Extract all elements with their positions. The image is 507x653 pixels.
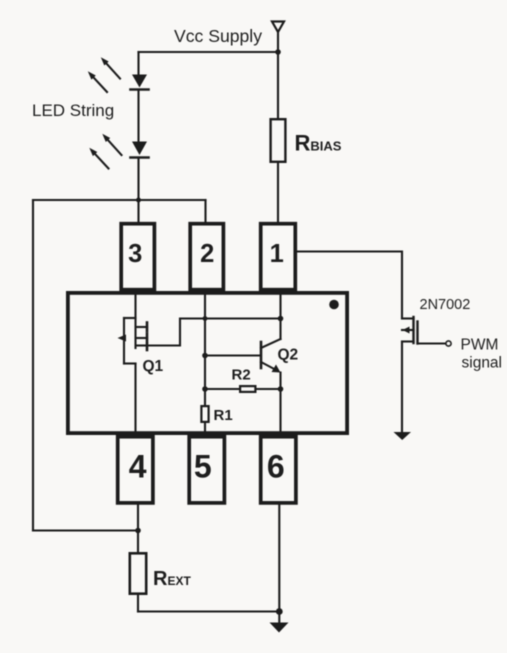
svg-text:REXT: REXT — [153, 568, 191, 590]
wire bottom rail — [138, 610, 279, 612]
wire left rail to Rext node — [33, 529, 138, 531]
wire pin1 into IC to Q2 collector — [279, 294, 281, 339]
ground symbol 2N7002 — [394, 432, 412, 440]
svg-text:PWM: PWM — [461, 337, 499, 354]
IC body — [68, 293, 347, 433]
wire 2N7002 source to ground — [401, 342, 403, 433]
wire Q1 drain to collector rail — [147, 319, 281, 346]
wire left rail vertical — [32, 200, 34, 531]
svg-text:1: 1 — [270, 240, 284, 268]
ground symbol bottom — [270, 623, 289, 633]
node collector junction — [278, 316, 284, 322]
svg-text:4: 4 — [129, 448, 147, 484]
svg-text:5: 5 — [194, 448, 212, 484]
wire pin4 to Rext — [137, 505, 139, 553]
LED D1 — [131, 75, 149, 90]
wire top rail — [139, 51, 279, 53]
wire rail to LED D1 — [137, 52, 139, 75]
wire Q1 source to pin 4 — [134, 364, 136, 436]
wire pin1 to 2N7002 drain — [298, 252, 403, 319]
node LED/rail junction — [136, 198, 141, 203]
pin 5 — [189, 437, 224, 503]
transistor Q1 — [118, 318, 148, 364]
node ground junction — [276, 608, 283, 615]
Vcc supply terminal — [272, 22, 284, 33]
svg-text:R1: R1 — [214, 407, 233, 424]
svg-text:Vcc Supply: Vcc Supply — [174, 26, 262, 46]
svg-text:Q1: Q1 — [143, 358, 164, 375]
IC pin1 marker dot — [329, 300, 339, 310]
svg-text:Q2: Q2 — [278, 347, 299, 364]
resistor RBIAS — [271, 119, 286, 162]
LED D1 emission arrows — [88, 57, 120, 92]
pin 4 — [118, 437, 153, 503]
wire vcc terminal to rail — [277, 32, 279, 52]
svg-text:LED String: LED String — [32, 101, 114, 120]
wire Rext to bottom rail — [137, 595, 139, 612]
PWM terminal — [446, 341, 451, 346]
wire Rbias to pin 1 — [277, 163, 279, 222]
wire D1 to D2 — [137, 91, 139, 142]
LED D2 emission arrows — [89, 134, 121, 169]
node crossing pin2 wire — [203, 316, 208, 321]
LED D2 — [131, 142, 149, 158]
wire D2 to node — [137, 159, 139, 223]
wire vcc to Rbias — [277, 52, 279, 118]
pin 6 — [261, 437, 296, 503]
pin 3 — [121, 224, 154, 290]
node vcc junction — [275, 49, 281, 55]
pin 1 — [261, 224, 296, 290]
pin 2 — [190, 224, 223, 290]
wire pin3 into IC / Q1 gate bar — [134, 294, 136, 348]
wire rail to pin 2 — [204, 200, 206, 222]
node emitter/R2 junction — [278, 386, 284, 392]
svg-text:6: 6 — [267, 448, 285, 484]
wire pin6 to ground rail — [278, 505, 280, 624]
resistor R1 — [201, 406, 208, 422]
svg-text:2N7002: 2N7002 — [420, 297, 471, 313]
svg-text:signal: signal — [462, 355, 503, 372]
svg-text:2: 2 — [200, 240, 214, 268]
transistor 2N7002 — [402, 317, 446, 344]
wire left rail horizontal — [33, 199, 206, 201]
resistor R2 — [205, 388, 239, 390]
wire pin2 into IC — [204, 294, 206, 405]
svg-text:R2: R2 — [232, 367, 251, 384]
transistor Q2 — [205, 339, 281, 373]
resistor REXT — [130, 553, 146, 593]
svg-text:RBIAS: RBIAS — [295, 131, 342, 156]
node R1/R2 junction — [202, 386, 208, 392]
wire Q2 emitter to pin 6 — [279, 373, 281, 436]
node Q2 base junction — [202, 353, 208, 359]
svg-text:3: 3 — [128, 240, 142, 268]
node Rext top junction — [135, 528, 141, 534]
